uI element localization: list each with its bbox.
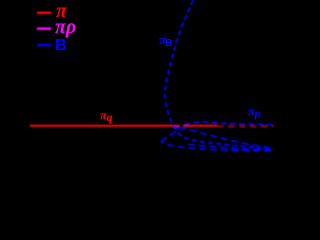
- legend red sample: [37, 12, 51, 15]
- legend pi label: [56, 0, 67, 23]
- legend magenta sample: [37, 27, 51, 30]
- legend blue sample: [37, 44, 51, 47]
- legend B label: [55, 37, 67, 55]
- red curve label pi_q: [100, 108, 113, 123]
- red dashed continuation: [217, 125, 274, 127]
- blue curve label pi_rho: [248, 104, 261, 119]
- blue curve label pi_B: [159, 32, 172, 48]
- gap in red line at crossing: [180, 124, 184, 128]
- blue lower arm: [161, 142, 274, 151]
- blue loop curve (avoided crossing bump): [161, 128, 274, 148]
- red solid pi line: [30, 125, 217, 127]
- blue pi-rho branch above red line: [176, 122, 274, 129]
- legend pi-rho label: [55, 16, 76, 39]
- blue middle strand: [188, 144, 274, 150]
- steep blue dashed B curve: [165, 0, 274, 149]
